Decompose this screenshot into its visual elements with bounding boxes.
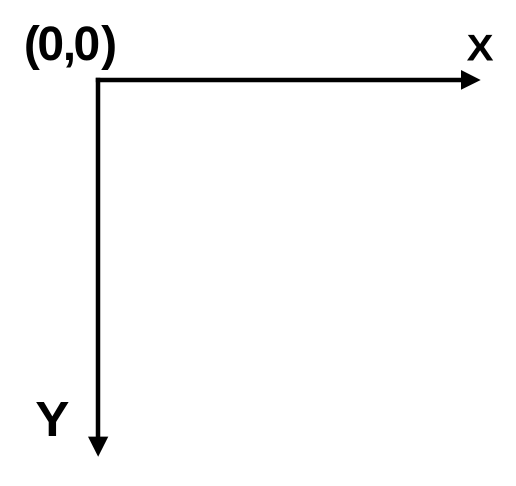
svg-text:(0,0): (0,0) <box>24 18 117 71</box>
svg-text:X: X <box>467 28 494 69</box>
svg-text:Y: Y <box>35 391 69 447</box>
